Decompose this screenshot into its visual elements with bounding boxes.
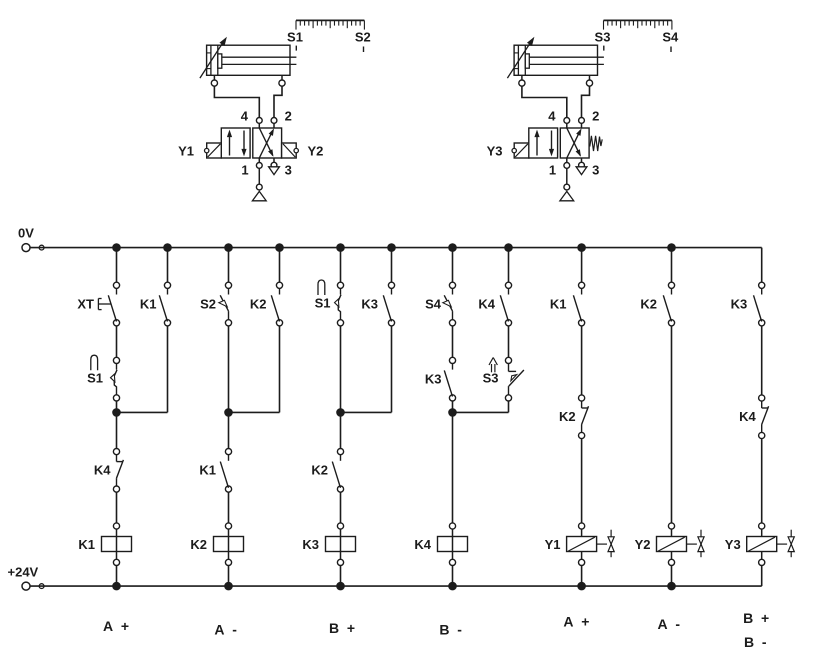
wire column 1 xyxy=(112,248,121,586)
cylinder 1A1 (double-acting, adjustable cushioning) xyxy=(200,37,297,86)
actuated mark over S1 column 5 xyxy=(318,280,325,295)
svg-text:3: 3 xyxy=(592,163,599,178)
label S1 (column 1) xyxy=(87,371,103,386)
label +24V xyxy=(8,565,39,580)
label K2 (column 10) xyxy=(640,297,657,312)
label K4 (coil) xyxy=(414,537,431,552)
svg-text:B -: B - xyxy=(744,634,767,650)
limit switch S4 (NO) xyxy=(443,282,456,326)
label S2 xyxy=(200,297,216,312)
wire column 8 xyxy=(453,248,509,413)
contact K3 (NO) column 6 xyxy=(383,282,394,326)
svg-text:K2: K2 xyxy=(190,537,207,552)
svg-text:K3: K3 xyxy=(425,372,442,387)
contact K2 (NO) column 5 xyxy=(332,449,343,493)
port label 2 xyxy=(285,109,292,124)
label K1 (column 2) xyxy=(140,297,157,312)
svg-text:K2: K2 xyxy=(250,297,267,312)
junction dots on +24V rail xyxy=(112,582,676,591)
wire cylinder 1A2 left port to valve port 4 xyxy=(522,86,567,117)
svg-text:Y3: Y3 xyxy=(725,537,741,552)
step label B- (column 11) xyxy=(744,634,767,650)
svg-text:B +: B + xyxy=(743,610,769,626)
mark S2 position xyxy=(363,47,365,53)
label Y3 (coil) xyxy=(725,537,741,552)
label Y2 xyxy=(308,144,324,159)
relay coil K2 xyxy=(214,523,244,566)
label Y2 (coil) xyxy=(635,537,651,552)
svg-text:S4: S4 xyxy=(425,297,442,312)
mark S3 position xyxy=(603,46,605,51)
contact K3 (NO) column 7 xyxy=(444,357,455,401)
label Y1 xyxy=(178,144,194,159)
step label A+ (column 1) xyxy=(103,618,129,634)
solenoid Y2 (valve 1V1 right) xyxy=(282,143,299,158)
svg-text:1: 1 xyxy=(241,163,248,178)
svg-text:1: 1 xyxy=(549,163,556,178)
svg-text:S3: S3 xyxy=(483,371,499,386)
label S3 xyxy=(483,371,499,386)
return spring (valve 1V2 right) xyxy=(590,136,602,151)
label K3 (coil) xyxy=(302,537,319,552)
port label 4 (valve 1V2) xyxy=(548,109,556,124)
svg-text:2: 2 xyxy=(592,109,599,124)
svg-text:A +: A + xyxy=(563,614,589,630)
relay coil K3 xyxy=(326,523,356,566)
distance scale for S3/S4 xyxy=(604,20,672,29)
label S4 xyxy=(662,30,679,45)
limit switch S1 (NO, actuated) column 5 xyxy=(335,282,344,326)
label K2 (column 4) xyxy=(250,297,267,312)
svg-text:K1: K1 xyxy=(140,297,157,312)
svg-text:A -: A - xyxy=(214,622,237,638)
label S4 xyxy=(425,297,442,312)
step label A- (column 3) xyxy=(214,622,237,638)
contact K3 (NO) column 11 xyxy=(754,282,765,326)
contact K1 (NO) column 3 xyxy=(220,449,231,493)
+24V supply rail xyxy=(22,582,762,590)
port label 1 xyxy=(241,163,248,178)
svg-text:A -: A - xyxy=(658,616,681,632)
wire column 7 xyxy=(448,248,457,586)
switch XT (NO pushbutton) xyxy=(98,282,119,326)
contact K2 (NO) column 4 xyxy=(271,282,282,326)
wire column 9 xyxy=(581,248,583,586)
wire cylinder 1A2 right port to valve port 2 xyxy=(582,86,590,117)
svg-text:K4: K4 xyxy=(478,297,495,312)
distance scale for S1/S2 xyxy=(296,20,364,29)
label K2 (column 5) xyxy=(311,463,328,478)
relay coil K4 xyxy=(438,523,468,566)
valve 1V1 4/2-way double solenoid xyxy=(221,118,281,201)
label K3 (column 6) xyxy=(361,297,378,312)
contact K2 (NC) column 9 xyxy=(579,395,589,439)
label K1 (coil) xyxy=(78,537,95,552)
svg-text:K4: K4 xyxy=(94,463,111,478)
svg-text:4: 4 xyxy=(548,109,556,124)
svg-text:Y2: Y2 xyxy=(635,537,651,552)
label K1 (column 3) xyxy=(199,463,216,478)
wire column 2 xyxy=(117,248,168,413)
step label A+ (column 9) xyxy=(563,614,589,630)
label S2 xyxy=(355,30,371,45)
svg-text:K2: K2 xyxy=(640,297,657,312)
mark S4 position xyxy=(670,47,672,53)
svg-text:K3: K3 xyxy=(731,297,748,312)
svg-text:A +: A + xyxy=(103,618,129,634)
label K4 (column 11) xyxy=(739,409,756,424)
step label A- (column 10) xyxy=(658,616,681,632)
label K3 (column 11) xyxy=(731,297,748,312)
label 0V xyxy=(18,226,34,241)
svg-text:K3: K3 xyxy=(361,297,378,312)
svg-text:0V: 0V xyxy=(18,226,34,241)
port label 1 (valve 1V2) xyxy=(549,163,556,178)
label K4 (column 1) xyxy=(94,463,111,478)
contact K4 (NO) column 8 xyxy=(500,282,511,326)
label K3 (column 7) xyxy=(425,372,442,387)
wire column 11 xyxy=(761,248,763,586)
svg-text:S2: S2 xyxy=(355,30,371,45)
port label 2 (valve 1V2) xyxy=(592,109,599,124)
limit switch S3 (NC, actuated open) xyxy=(505,357,524,401)
relay coil K1 xyxy=(102,523,132,566)
0V supply rail xyxy=(22,244,762,252)
svg-text:4: 4 xyxy=(241,109,249,124)
svg-text:Y1: Y1 xyxy=(178,144,194,159)
label K2 (column 9) xyxy=(559,409,576,424)
svg-text:K1: K1 xyxy=(550,297,567,312)
svg-text:K2: K2 xyxy=(311,463,328,478)
port label 4 xyxy=(241,109,249,124)
wire column 10 xyxy=(671,248,673,586)
svg-text:S1: S1 xyxy=(287,30,303,45)
label Y1 (coil) xyxy=(545,537,561,552)
mark S1 position xyxy=(295,46,297,51)
wire column 4 xyxy=(229,248,280,413)
svg-text:Y1: Y1 xyxy=(545,537,561,552)
wire cylinder 1A1 left port to valve port 4 xyxy=(214,86,259,117)
svg-text:K1: K1 xyxy=(199,463,216,478)
svg-text:B +: B + xyxy=(329,620,355,636)
solenoid coil Y2 xyxy=(657,523,705,566)
step label B+ (column 5) xyxy=(329,620,355,636)
svg-text:K2: K2 xyxy=(559,409,576,424)
solenoid coil Y3 xyxy=(747,523,795,566)
limit switch S2 (NO) xyxy=(219,282,232,326)
label K4 (column 8) xyxy=(478,297,495,312)
port label 3 xyxy=(285,163,292,178)
label Y3 xyxy=(487,144,503,159)
label S1 xyxy=(287,30,303,45)
label K2 (coil) xyxy=(190,537,207,552)
svg-text:S2: S2 xyxy=(200,297,216,312)
contact K1 (NO) column 2 xyxy=(159,282,170,326)
svg-text:Y3: Y3 xyxy=(487,144,503,159)
solenoid Y1 (valve 1V1 left) xyxy=(205,143,222,158)
svg-text:K3: K3 xyxy=(302,537,319,552)
actuation arrow over S3 xyxy=(489,358,497,373)
valve 1V2 4/2-way solenoid with spring return xyxy=(529,118,589,201)
wire column 3 xyxy=(224,248,233,586)
svg-text:S4: S4 xyxy=(662,30,679,45)
svg-text:K1: K1 xyxy=(78,537,95,552)
svg-text:+24V: +24V xyxy=(8,565,39,580)
contact K4 (NC) column 1 xyxy=(113,449,123,493)
solenoid Y3 (valve 1V2 left) xyxy=(512,143,529,158)
wire cylinder 1A1 right port to valve port 2 xyxy=(274,86,282,117)
step label B- (column 7) xyxy=(439,622,462,638)
label S1 (column 5) xyxy=(315,296,331,311)
wire column 5 xyxy=(336,248,345,586)
step label B+ (column 11) xyxy=(743,610,769,626)
svg-text:2: 2 xyxy=(285,109,292,124)
cylinder 1A2 (double-acting, adjustable cushioning) xyxy=(507,37,604,86)
svg-text:K4: K4 xyxy=(414,537,431,552)
svg-text:S1: S1 xyxy=(315,296,331,311)
svg-text:3: 3 xyxy=(285,163,292,178)
svg-text:XT: XT xyxy=(77,297,94,312)
port label 3 (valve 1V2) xyxy=(592,163,599,178)
svg-text:K4: K4 xyxy=(739,409,756,424)
contact K1 (NO) column 9 xyxy=(573,282,584,326)
label K1 (column 9) xyxy=(550,297,567,312)
svg-text:S3: S3 xyxy=(595,30,611,45)
svg-text:B -: B - xyxy=(439,622,462,638)
actuated mark over S1 xyxy=(91,355,98,370)
junction dots on 0V rail xyxy=(112,243,676,252)
wire column 6 xyxy=(341,248,392,413)
contact K2 (NO) column 10 xyxy=(663,282,674,326)
svg-text:Y2: Y2 xyxy=(308,144,324,159)
svg-text:S1: S1 xyxy=(87,371,103,386)
label S3 xyxy=(595,30,611,45)
label XT xyxy=(77,297,94,312)
solenoid coil Y1 xyxy=(567,523,615,566)
limit switch S1 (NO, actuated) xyxy=(111,357,120,401)
contact K4 (NC) column 11 xyxy=(759,395,769,439)
